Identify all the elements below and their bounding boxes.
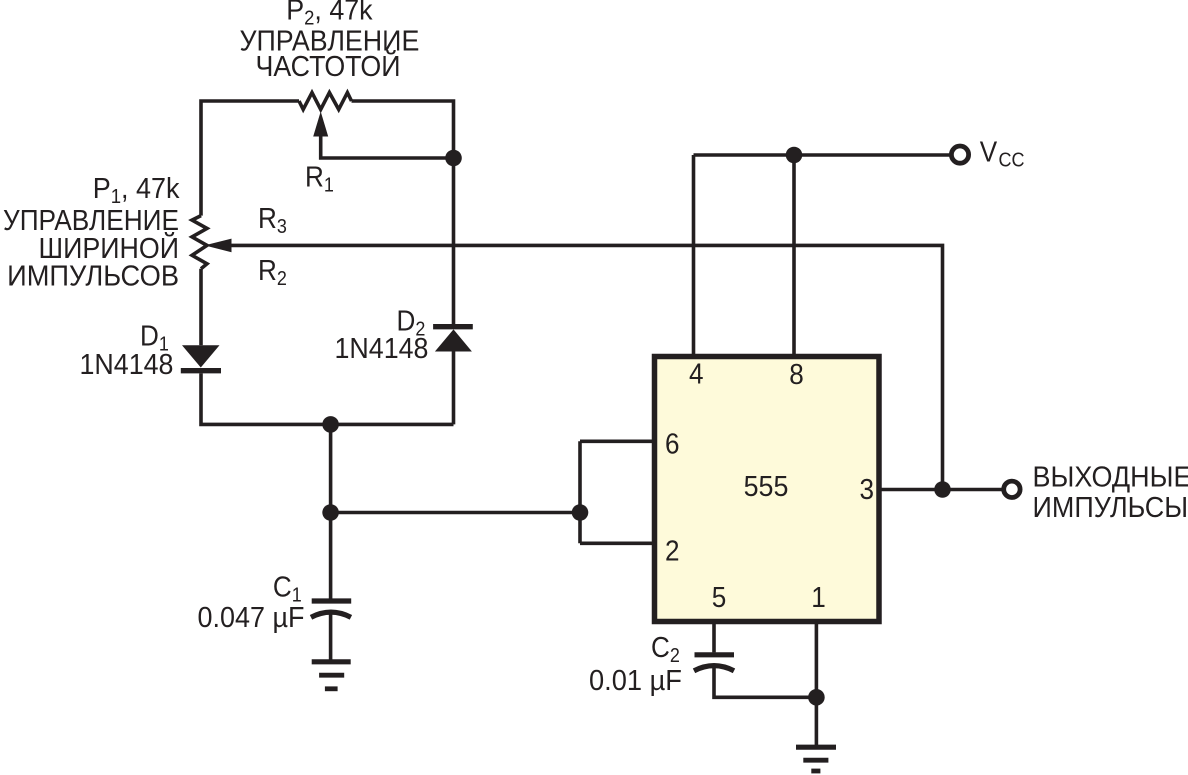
svg-text:1N4148: 1N4148 (80, 348, 174, 380)
svg-text:R1: R1 (305, 160, 334, 197)
svg-text:0.047 µF: 0.047 µF (198, 601, 305, 633)
capacitor C1 top plate (312, 598, 352, 603)
wire left vertical between P1 and D1 (199, 269, 203, 345)
wire D2 anode down to bottom horizontal (452, 352, 456, 425)
wire top-right: top rail right segment and right vertical down to D2 (352, 101, 454, 324)
junction node B (322, 504, 339, 521)
svg-text:P1, 47k: P1, 47k (93, 172, 181, 208)
terminal output circle (1004, 481, 1020, 497)
wire C1 bottom to ground (329, 614, 333, 662)
svg-text:6: 6 (665, 427, 680, 460)
diode D1 cathode bar (181, 368, 221, 373)
wire pin 8 vertical (792, 155, 796, 354)
wire vertical tie between pin 6 and pin 2 (578, 441, 582, 543)
svg-text:8: 8 (789, 358, 804, 391)
resistor P1 zigzag body (192, 216, 207, 269)
wire pin 3 to output terminal (878, 488, 1002, 492)
capacitor C2 curved plate (694, 666, 734, 671)
wire node A down to node B (329, 424, 333, 601)
svg-text:1N4148: 1N4148 (335, 332, 429, 364)
junction node bottom horizontal (322, 416, 339, 433)
svg-text:2: 2 (665, 534, 680, 567)
diode D2 triangle (435, 329, 472, 351)
wire Vcc rail (694, 153, 950, 157)
junction node pins 6/2 tie (572, 504, 589, 521)
ground below C1 (312, 659, 351, 664)
wire pin 5 to C2 (712, 622, 716, 653)
svg-text:R2: R2 (258, 254, 287, 291)
junction node pin3/R3 (934, 481, 951, 498)
terminal Vcc circle (951, 146, 968, 163)
wire node B to pins 6/2 tie (331, 511, 580, 515)
capacitor C2 top plate (695, 652, 735, 657)
svg-text:ВЫХОДНЫЕ: ВЫХОДНЫЕ (1033, 461, 1188, 493)
svg-text:555: 555 (744, 470, 789, 502)
wire pin 4 vertical (692, 155, 696, 354)
svg-text:5: 5 (712, 581, 727, 614)
diode D2 cathode bar (433, 324, 473, 329)
svg-text:ИМПУЛЬСОВ: ИМПУЛЬСОВ (7, 260, 179, 292)
wire wiper of P2 to node R1 (321, 135, 454, 158)
wire pin 1 vertical to ground (815, 622, 819, 747)
junction node wiper/R1 on right vertical (445, 150, 462, 167)
potentiometer P1 wiper arrowhead (205, 239, 232, 253)
capacitor C1 curved plate (311, 612, 351, 617)
junction node C2/pin1 ground (808, 689, 825, 706)
ground below pin 1 (796, 745, 836, 750)
wire pin 6 stub (580, 439, 654, 443)
svg-text:R3: R3 (258, 202, 287, 239)
wire C2 bottom to ground node (714, 666, 816, 697)
op-amp U1 555 timer IC body (655, 357, 880, 622)
wire left vertical below D1 and bottom horizontal to D2 (201, 373, 454, 424)
wire pin 2 stub (580, 541, 654, 545)
svg-text:1: 1 (811, 581, 826, 614)
potentiometer P2 wiper arrowhead (313, 112, 328, 137)
wire top-left: top rail to left vertical (201, 101, 299, 216)
svg-text:C2: C2 (651, 631, 680, 668)
resistor P2 zigzag body (299, 93, 352, 110)
diode D1 triangle (182, 345, 220, 367)
junction node Vcc/pin8 (786, 147, 803, 164)
svg-text:3: 3 (860, 473, 875, 506)
wire R3 shaft from P1 wiper to pin 3 node (231, 245, 943, 489)
svg-text:VCC: VCC (980, 135, 1025, 171)
svg-text:0.01 µF: 0.01 µF (589, 664, 682, 696)
svg-text:ИМПУЛЬСЫ: ИМПУЛЬСЫ (1033, 491, 1188, 523)
svg-text:ЧАСТОТОЙ: ЧАСТОТОЙ (256, 50, 401, 82)
svg-text:4: 4 (689, 357, 704, 390)
